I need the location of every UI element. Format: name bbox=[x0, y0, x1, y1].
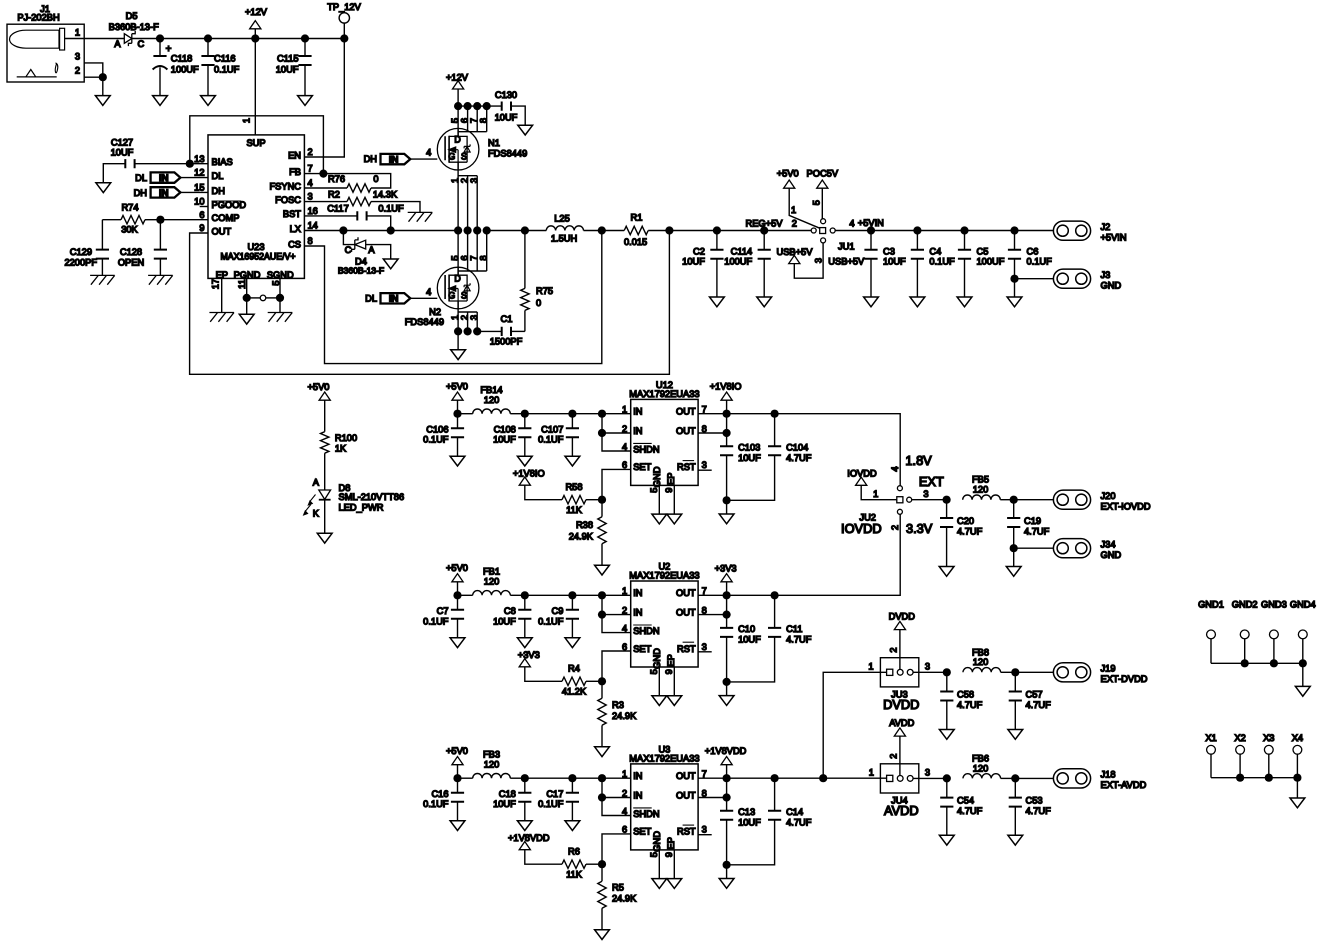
svg-text:8: 8 bbox=[479, 255, 489, 260]
wire bbox=[525, 413, 573, 415]
capacitor C10 10UF bbox=[720, 615, 761, 682]
junction bbox=[723, 611, 731, 619]
svg-text:C58: C58 bbox=[957, 689, 974, 699]
svg-text:+12V: +12V bbox=[245, 7, 268, 17]
junction bbox=[713, 226, 721, 234]
svg-text:41.2K: 41.2K bbox=[562, 687, 587, 697]
junction bbox=[723, 861, 731, 869]
junction bbox=[251, 34, 259, 42]
junction bbox=[1010, 275, 1018, 283]
power +1V8IO bbox=[513, 468, 562, 499]
svg-text:7: 7 bbox=[308, 164, 313, 174]
ground bbox=[864, 297, 879, 307]
ground bbox=[719, 696, 734, 706]
svg-text:J18: J18 bbox=[1101, 770, 1116, 780]
capacitor C129 2200PF bbox=[64, 220, 109, 276]
svg-text:RST: RST bbox=[677, 462, 696, 472]
junction bbox=[598, 611, 606, 619]
svg-text:C19: C19 bbox=[1024, 516, 1041, 526]
svg-text:+5V0: +5V0 bbox=[446, 563, 468, 573]
svg-text:DH: DH bbox=[134, 188, 147, 198]
jumper JU2 bbox=[859, 486, 911, 523]
wire +5VIN bbox=[835, 218, 884, 231]
svg-text:0: 0 bbox=[536, 298, 541, 308]
svg-text:C10: C10 bbox=[738, 624, 755, 634]
wire top rail bbox=[305, 38, 344, 40]
wire bbox=[525, 594, 573, 596]
svg-text:1: 1 bbox=[869, 767, 874, 777]
svg-text:R5: R5 bbox=[612, 883, 624, 893]
junction bbox=[598, 793, 606, 801]
svg-text:FB3: FB3 bbox=[483, 750, 500, 760]
svg-text:DL: DL bbox=[365, 293, 377, 303]
ground bbox=[451, 350, 466, 360]
header GND1 bbox=[1198, 599, 1224, 663]
capacitor C107 0.1UF bbox=[538, 414, 579, 457]
wire bbox=[726, 500, 728, 514]
svg-text:120: 120 bbox=[973, 763, 989, 773]
svg-text:0.1UF: 0.1UF bbox=[1027, 257, 1053, 267]
svg-text:4.7UF: 4.7UF bbox=[1026, 806, 1052, 816]
svg-text:120: 120 bbox=[484, 760, 500, 770]
svg-text:IN: IN bbox=[159, 173, 169, 184]
ground chassis bbox=[268, 313, 293, 322]
ground bbox=[450, 456, 465, 466]
svg-text:0.1UF: 0.1UF bbox=[538, 435, 564, 445]
junction bbox=[771, 591, 779, 599]
power AVDD pin 2 bbox=[889, 718, 915, 776]
svg-text:100UF: 100UF bbox=[724, 257, 752, 267]
svg-text:7: 7 bbox=[469, 255, 479, 260]
svg-text:DH: DH bbox=[212, 186, 225, 196]
power +12V bbox=[245, 7, 268, 39]
wire IN pin 2 bbox=[602, 414, 631, 433]
capacitor C17 0.1UF bbox=[538, 778, 579, 821]
connector J19 EXT-DVDD bbox=[1053, 663, 1147, 684]
svg-text:C54: C54 bbox=[957, 795, 974, 805]
svg-text:MAX1792EUA33: MAX1792EUA33 bbox=[629, 389, 699, 399]
svg-text:GND1: GND1 bbox=[1198, 599, 1224, 609]
header X2 bbox=[1234, 733, 1245, 778]
wire FB pin 7 bbox=[304, 173, 323, 175]
header X3 bbox=[1263, 733, 1274, 778]
svg-text:FB14: FB14 bbox=[480, 385, 502, 395]
svg-text:X4: X4 bbox=[1292, 733, 1303, 743]
svg-text:FDS8449: FDS8449 bbox=[488, 149, 527, 159]
svg-text:10UF: 10UF bbox=[738, 453, 761, 463]
wire drain rail N1 bbox=[458, 105, 502, 107]
svg-text:24.9K: 24.9K bbox=[569, 532, 594, 542]
wire to J19 bbox=[1015, 671, 1053, 673]
capacitor C13 10UF bbox=[720, 798, 761, 865]
resistor R100 1K bbox=[321, 400, 358, 490]
svg-text:+1V8VDD: +1V8VDD bbox=[705, 746, 747, 756]
junction bbox=[453, 410, 461, 418]
svg-text:OUT: OUT bbox=[212, 226, 232, 236]
svg-text:TP_12V: TP_12V bbox=[327, 2, 361, 12]
svg-text:1: 1 bbox=[622, 405, 627, 415]
resistor R75 0 bbox=[521, 231, 553, 332]
svg-text:AVDD: AVDD bbox=[884, 803, 919, 818]
wire X bus bbox=[1211, 777, 1297, 779]
ground bbox=[957, 297, 972, 307]
svg-text:4.7UF: 4.7UF bbox=[957, 806, 983, 816]
svg-text:MAX1792EUA33: MAX1792EUA33 bbox=[629, 754, 699, 764]
junction bbox=[723, 496, 731, 504]
capacitor C108 10UF bbox=[493, 414, 531, 457]
capacitor C115 10UF bbox=[276, 39, 312, 96]
svg-text:7: 7 bbox=[469, 118, 479, 123]
svg-text:OUT: OUT bbox=[676, 407, 696, 417]
svg-text:16: 16 bbox=[308, 206, 318, 216]
svg-text:100UF: 100UF bbox=[171, 65, 199, 75]
svg-text:FOSC: FOSC bbox=[275, 195, 301, 205]
op-amp U3 MAX1792EUA33 regulator bbox=[622, 744, 712, 888]
wire bbox=[727, 413, 775, 415]
tag DL IN gate bbox=[365, 287, 437, 305]
svg-text:3: 3 bbox=[925, 768, 930, 778]
svg-text:GND: GND bbox=[652, 648, 662, 669]
svg-text:EN: EN bbox=[288, 150, 301, 160]
ground bbox=[719, 879, 734, 889]
svg-text:R100: R100 bbox=[335, 433, 357, 443]
ground bbox=[201, 96, 216, 106]
svg-text:N1: N1 bbox=[488, 138, 500, 148]
junction bbox=[723, 410, 731, 418]
svg-text:SML-210VTT86: SML-210VTT86 bbox=[339, 492, 405, 502]
resistor R1 0.015 bbox=[602, 213, 670, 248]
wire bbox=[457, 331, 459, 349]
svg-text:R2: R2 bbox=[328, 189, 340, 199]
capacitor C116 0.1UF bbox=[201, 39, 239, 96]
svg-text:C118: C118 bbox=[171, 53, 193, 63]
node 3.3V label bbox=[906, 521, 933, 536]
svg-text:SET: SET bbox=[633, 644, 651, 654]
ground bbox=[450, 638, 465, 648]
wire 3.3V to JU2 pin 2 bbox=[775, 512, 901, 596]
junction bbox=[1010, 496, 1018, 504]
svg-text:10UF: 10UF bbox=[493, 435, 516, 445]
svg-text:IOVDD: IOVDD bbox=[847, 468, 877, 478]
svg-text:120: 120 bbox=[973, 485, 989, 495]
svg-text:4.7UF: 4.7UF bbox=[786, 817, 812, 827]
wire top rail bbox=[255, 38, 305, 40]
svg-text:3: 3 bbox=[469, 178, 479, 183]
ground bbox=[517, 456, 532, 466]
svg-text:C106: C106 bbox=[426, 424, 448, 434]
svg-text:C11: C11 bbox=[786, 624, 802, 634]
svg-text:X2: X2 bbox=[1234, 733, 1245, 743]
inductor L25 1.5UH bbox=[546, 213, 602, 243]
svg-text:4: 4 bbox=[622, 442, 627, 452]
svg-text:J20: J20 bbox=[1101, 491, 1116, 501]
svg-text:GND4: GND4 bbox=[1290, 599, 1316, 609]
svg-text:+1V8VDD: +1V8VDD bbox=[508, 833, 550, 843]
svg-text:C129: C129 bbox=[70, 247, 92, 257]
svg-text:10UF: 10UF bbox=[682, 257, 705, 267]
power +1V8VDD bbox=[508, 833, 562, 864]
ground bbox=[517, 821, 532, 831]
junction bbox=[723, 774, 731, 782]
svg-text:0.1UF: 0.1UF bbox=[214, 65, 240, 75]
junction bbox=[1293, 774, 1301, 782]
diode D4 B360B-13-F bbox=[338, 231, 391, 276]
svg-text:5: 5 bbox=[812, 200, 822, 205]
svg-text:2200PF: 2200PF bbox=[64, 257, 97, 267]
svg-text:3: 3 bbox=[923, 489, 928, 499]
svg-text:24.9K: 24.9K bbox=[612, 894, 637, 904]
capacitor C127 10UF bbox=[103, 137, 190, 183]
svg-text:11K: 11K bbox=[566, 505, 583, 515]
svg-text:C116: C116 bbox=[214, 53, 236, 63]
ground bbox=[565, 456, 580, 466]
svg-text:+3V3: +3V3 bbox=[518, 650, 540, 660]
svg-text:4.7UF: 4.7UF bbox=[786, 453, 812, 463]
ground bbox=[96, 183, 111, 193]
wire JU2 pin 3 bbox=[912, 489, 947, 500]
ground bbox=[383, 259, 398, 269]
pin PGND 11 bbox=[246, 278, 248, 298]
ground bbox=[710, 297, 725, 307]
svg-text:J3: J3 bbox=[1101, 270, 1111, 280]
svg-text:5: 5 bbox=[649, 852, 659, 857]
capacitor C106 0.1UF bbox=[423, 414, 464, 457]
wire OUT pin 8 bbox=[698, 778, 727, 797]
svg-text:FSYNC: FSYNC bbox=[269, 181, 301, 191]
svg-text:0: 0 bbox=[373, 174, 378, 184]
junction bbox=[483, 102, 491, 110]
svg-text:2: 2 bbox=[308, 147, 313, 157]
wire IN pin 2 bbox=[602, 778, 631, 797]
svg-text:D: D bbox=[454, 274, 460, 284]
tag DH IN bbox=[134, 187, 208, 199]
power USB+5V pin 3 bbox=[777, 243, 866, 278]
svg-text:COMP: COMP bbox=[212, 213, 240, 223]
power +5V0 bbox=[777, 169, 820, 229]
ground bbox=[298, 96, 313, 106]
svg-text:9: 9 bbox=[664, 669, 674, 674]
capacitor C117 0.1UF bbox=[304, 203, 404, 230]
capacitor C3 10UF bbox=[864, 231, 906, 298]
junction bbox=[943, 668, 951, 676]
tag DH IN gate bbox=[364, 148, 438, 166]
svg-text:10UF: 10UF bbox=[738, 635, 761, 645]
wire SHDN pin 4 bbox=[602, 798, 631, 816]
svg-text:+5V0: +5V0 bbox=[777, 169, 799, 179]
svg-text:X1: X1 bbox=[1205, 733, 1216, 743]
junction bbox=[453, 774, 461, 782]
svg-text:C103: C103 bbox=[738, 443, 760, 453]
svg-text:3: 3 bbox=[469, 315, 479, 320]
svg-text:120: 120 bbox=[484, 395, 500, 405]
power +5V0 bbox=[446, 746, 468, 778]
svg-text:3: 3 bbox=[702, 460, 707, 470]
wire OUT pin 7 bbox=[698, 413, 727, 415]
svg-text:1: 1 bbox=[450, 315, 460, 320]
resistor R5 24.9K bbox=[598, 864, 637, 930]
svg-text:L25: L25 bbox=[554, 213, 570, 223]
wire bbox=[871, 230, 917, 232]
svg-text:FB8: FB8 bbox=[972, 647, 989, 657]
wire bbox=[246, 298, 248, 314]
ground bbox=[719, 514, 734, 524]
junction bbox=[387, 226, 395, 234]
resistor R76 0 bbox=[304, 174, 390, 193]
wire bbox=[727, 594, 775, 596]
svg-text:C117: C117 bbox=[327, 203, 349, 213]
svg-text:IN: IN bbox=[159, 188, 169, 199]
svg-text:B360B-13-F: B360B-13-F bbox=[338, 266, 384, 276]
power IOVDD pin 1 bbox=[847, 468, 897, 499]
svg-text:JU1: JU1 bbox=[838, 242, 855, 252]
junction bbox=[819, 774, 827, 782]
svg-text:4: 4 bbox=[426, 287, 431, 297]
svg-text:5: 5 bbox=[450, 255, 460, 260]
power +3V3 bbox=[715, 563, 737, 595]
diode D5 B360B-13-F bbox=[84, 11, 160, 49]
junction bbox=[598, 226, 606, 234]
wire EN to +12V bbox=[304, 39, 344, 158]
ground bbox=[317, 533, 332, 543]
tag DL IN bbox=[135, 172, 208, 184]
svg-text:C: C bbox=[345, 245, 352, 255]
junction PGND bbox=[243, 294, 251, 302]
ground bbox=[518, 125, 533, 135]
junction bbox=[473, 102, 481, 110]
svg-text:3: 3 bbox=[702, 642, 707, 652]
svg-text:R38: R38 bbox=[576, 520, 593, 530]
svg-text:3: 3 bbox=[308, 192, 313, 202]
wire to JU4 pin 1 bbox=[775, 767, 887, 778]
svg-text:C114: C114 bbox=[731, 246, 753, 256]
svg-text:12: 12 bbox=[194, 168, 204, 178]
svg-text:9: 9 bbox=[199, 223, 204, 233]
inductor FB5 120 bbox=[963, 475, 1014, 500]
svg-text:2: 2 bbox=[460, 315, 470, 320]
svg-text:SET: SET bbox=[633, 827, 651, 837]
wire bbox=[965, 230, 1015, 232]
junction bbox=[665, 226, 673, 234]
svg-text:C13: C13 bbox=[738, 807, 755, 817]
svg-text:120: 120 bbox=[973, 657, 989, 667]
header GND2 bbox=[1232, 599, 1258, 663]
power +3V3 bbox=[518, 650, 562, 681]
wire COMP pin 6 bbox=[160, 219, 208, 221]
svg-text:+3V3: +3V3 bbox=[715, 563, 737, 573]
svg-text:R74: R74 bbox=[121, 203, 138, 213]
wire OUT pin 8 bbox=[698, 414, 727, 433]
wire OUT pin 7 bbox=[698, 594, 727, 596]
connector J1 PJ-202BH bbox=[7, 4, 84, 82]
svg-text:0.1UF: 0.1UF bbox=[378, 203, 404, 213]
pin EP 17 bbox=[221, 278, 223, 312]
svg-text:9: 9 bbox=[664, 488, 674, 493]
wire SHDN pin 4 bbox=[602, 433, 631, 451]
capacitor C14 4.7UF bbox=[727, 778, 812, 865]
junction bbox=[464, 226, 472, 234]
ground bbox=[939, 567, 954, 577]
capacitor C53 4.7UF bbox=[1009, 778, 1051, 835]
svg-text:R75: R75 bbox=[536, 286, 553, 296]
junction bbox=[340, 34, 348, 42]
wire LX rail bbox=[487, 230, 547, 232]
svg-text:C2: C2 bbox=[693, 246, 705, 256]
svg-text:SHDN: SHDN bbox=[633, 445, 659, 455]
svg-text:R3: R3 bbox=[612, 700, 624, 710]
svg-text:2: 2 bbox=[622, 788, 627, 798]
ground bbox=[1006, 567, 1021, 577]
junction bbox=[473, 226, 481, 234]
svg-text:IOVDD: IOVDD bbox=[841, 521, 882, 536]
junction bbox=[598, 591, 606, 599]
svg-text:100UF: 100UF bbox=[977, 257, 1005, 267]
svg-text:R4: R4 bbox=[568, 664, 580, 674]
svg-text:8: 8 bbox=[479, 118, 489, 123]
wire OUT pin 9 sense loop bbox=[190, 231, 670, 375]
wire to ground bbox=[102, 77, 104, 95]
junction bbox=[568, 591, 576, 599]
junction bbox=[339, 226, 347, 234]
svg-text:1: 1 bbox=[242, 118, 252, 123]
junction node +12V bbox=[156, 34, 164, 42]
svg-text:1: 1 bbox=[450, 178, 460, 183]
inductor FB8 120 bbox=[963, 647, 1015, 672]
node IOVDD label bbox=[841, 521, 882, 536]
capacitor C11 4.7UF bbox=[727, 595, 812, 682]
junction bbox=[960, 226, 968, 234]
svg-text:6: 6 bbox=[199, 210, 204, 220]
svg-text:4: 4 bbox=[622, 623, 627, 633]
wire top rail bbox=[208, 38, 255, 40]
power +1V8IO bbox=[710, 382, 742, 414]
svg-text:OUT: OUT bbox=[676, 426, 696, 436]
svg-text:9: 9 bbox=[664, 852, 674, 857]
svg-text:11: 11 bbox=[237, 279, 247, 289]
svg-text:OUT: OUT bbox=[676, 607, 696, 617]
junction bbox=[464, 327, 472, 335]
svg-text:2: 2 bbox=[460, 178, 470, 183]
svg-text:FB5: FB5 bbox=[972, 475, 989, 485]
wire IN pin 1 bbox=[572, 413, 630, 415]
wire bbox=[717, 230, 764, 232]
svg-text:4.7UF: 4.7UF bbox=[1026, 700, 1052, 710]
svg-text:C6: C6 bbox=[1027, 246, 1039, 256]
resistor R4 41.2K bbox=[562, 664, 602, 697]
svg-text:+5V0: +5V0 bbox=[446, 381, 468, 391]
inductor FB1 120 bbox=[458, 567, 525, 596]
svg-text:C127: C127 bbox=[111, 137, 133, 147]
resistor R3 24.9K bbox=[598, 681, 637, 747]
svg-text:SUP: SUP bbox=[246, 138, 265, 148]
header GND4 bbox=[1290, 599, 1316, 663]
svg-text:MAX16952AUE/V+: MAX16952AUE/V+ bbox=[220, 252, 295, 262]
svg-text:2: 2 bbox=[889, 647, 899, 652]
svg-text:C3: C3 bbox=[883, 246, 895, 256]
svg-text:3: 3 bbox=[75, 51, 80, 61]
svg-text:RST: RST bbox=[677, 827, 696, 837]
capacitor C57 4.7UF bbox=[1009, 672, 1051, 729]
ground bbox=[1007, 297, 1022, 307]
svg-text:R58: R58 bbox=[565, 482, 582, 492]
capacitor C54 4.7UF bbox=[940, 778, 982, 835]
capacitor C20 4.7UF bbox=[940, 500, 983, 567]
pin 10 PGOOD stub bbox=[200, 206, 208, 208]
svg-text:EXT-AVDD: EXT-AVDD bbox=[1101, 780, 1147, 790]
wire to J18 bbox=[1015, 777, 1053, 779]
capacitor C19 4.7UF bbox=[1007, 500, 1050, 567]
svg-text:IN: IN bbox=[633, 607, 642, 617]
svg-text:N2: N2 bbox=[429, 307, 441, 317]
